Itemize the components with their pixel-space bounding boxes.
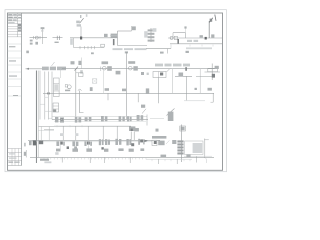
label a xyxy=(26,51,29,54)
left stub D9 xyxy=(146,115,148,126)
wire W3 upper xyxy=(118,30,132,32)
label row A3 xyxy=(186,47,212,49)
unit cluster D4 xyxy=(101,116,107,122)
shaft boxes SB1 xyxy=(53,103,59,112)
label G1 xyxy=(56,149,60,152)
hook h6 xyxy=(176,159,178,164)
junction blob J1 xyxy=(205,37,207,40)
bus W11 xyxy=(52,119,148,121)
riser tag D8 xyxy=(167,109,175,122)
label G10 xyxy=(40,159,49,161)
label G11 xyxy=(44,161,51,163)
blob F0a xyxy=(33,141,36,146)
bus W13 xyxy=(28,140,160,142)
branch b1 xyxy=(45,96,49,98)
stub S5 xyxy=(186,93,188,100)
loop riser R7 xyxy=(78,89,84,113)
label G3 xyxy=(86,148,92,151)
riser R2 xyxy=(75,69,77,120)
stub S2 xyxy=(107,93,109,100)
wire W4 drops xyxy=(173,26,187,38)
pump P3 xyxy=(101,66,112,71)
label G8 xyxy=(161,155,167,157)
drop E4 xyxy=(87,126,89,140)
hook h3 xyxy=(103,157,105,163)
label h xyxy=(160,52,164,54)
unit U1 xyxy=(65,85,71,92)
label F9 text xyxy=(152,136,166,139)
diag F9b xyxy=(166,140,169,144)
shaft box SB0 xyxy=(54,78,60,97)
riser tag flag xyxy=(209,15,216,23)
label W10a xyxy=(90,87,93,91)
blob F0c xyxy=(29,141,32,145)
marks A2 xyxy=(144,31,147,37)
label W10c xyxy=(122,89,126,92)
riser group xyxy=(40,71,52,120)
unit cluster D5 xyxy=(119,116,132,121)
main riser R1 xyxy=(36,71,38,164)
hook G14 xyxy=(205,158,208,163)
dot F15 xyxy=(67,146,69,149)
unit F6 xyxy=(126,139,134,146)
label row A1 xyxy=(113,48,147,50)
drop d1 xyxy=(73,38,75,48)
wire W2 lower xyxy=(74,47,105,49)
branch b2 xyxy=(40,103,45,105)
flow arrow A1 xyxy=(26,68,43,70)
bus W8 xyxy=(62,68,216,70)
unit cluster D2 xyxy=(75,117,81,123)
hook h7 xyxy=(196,156,198,162)
label W10d xyxy=(146,88,149,94)
label c xyxy=(91,52,94,54)
wire W10 xyxy=(43,92,214,94)
label G5 xyxy=(118,148,123,151)
junction W10j xyxy=(47,92,50,94)
riser R5c xyxy=(199,69,201,94)
label G9 xyxy=(186,154,190,157)
drop E3 xyxy=(75,126,77,140)
sheet inner frame xyxy=(8,13,223,170)
mark F17 xyxy=(74,146,77,148)
wire W10g xyxy=(184,100,205,102)
riser R4 xyxy=(126,52,128,120)
label S0 xyxy=(132,26,136,31)
blob B1a xyxy=(160,73,163,76)
stub S3 xyxy=(137,93,139,102)
shaded unit F12 xyxy=(185,141,204,155)
unit F12 stub xyxy=(204,139,209,159)
flow arrow F8 xyxy=(144,140,147,142)
pipe label LB1 xyxy=(42,62,66,70)
drop F13 xyxy=(59,142,61,151)
expansion tank T1 xyxy=(76,14,87,26)
sheet outer border xyxy=(5,10,227,172)
label D7 xyxy=(141,105,146,114)
gauge stem G1 xyxy=(42,29,44,44)
unit cluster D6 xyxy=(137,115,144,121)
bus W11 upper xyxy=(52,116,147,118)
riser R5b xyxy=(172,69,174,94)
wire W9 xyxy=(175,75,192,77)
stub G0 xyxy=(25,150,27,157)
unit U2 xyxy=(92,79,96,83)
valve dark V5 xyxy=(177,39,179,44)
label b xyxy=(71,61,75,64)
junction J2 xyxy=(75,67,79,71)
riser R5 xyxy=(158,78,160,94)
valve V4 xyxy=(170,36,177,39)
stub S4 xyxy=(158,93,160,103)
wire W12 xyxy=(54,125,131,127)
label g xyxy=(186,51,189,53)
label W10b xyxy=(105,88,109,91)
valve V1 xyxy=(34,36,41,39)
symbols S0 xyxy=(110,34,118,38)
label W1a xyxy=(30,40,33,45)
riser R5d xyxy=(103,69,105,94)
box E8 xyxy=(180,126,186,131)
wire W7 xyxy=(146,48,171,50)
unit F7 xyxy=(138,139,144,145)
unit F1 xyxy=(56,141,64,146)
pump P4 xyxy=(129,66,138,70)
ticks W2 xyxy=(80,46,95,49)
unit U3 xyxy=(196,64,220,81)
valve dark V2 xyxy=(113,39,115,45)
wire D9b xyxy=(150,118,164,120)
ticks W12 xyxy=(57,125,82,127)
unit cluster D3 xyxy=(85,117,92,121)
tank drop xyxy=(80,27,82,38)
valve V5b xyxy=(76,73,83,77)
label e xyxy=(128,61,135,64)
branch b4 xyxy=(48,117,52,119)
unit F9 xyxy=(152,140,165,145)
drop E6 xyxy=(116,126,118,140)
label G7 xyxy=(140,148,144,151)
dark blip J4b xyxy=(185,67,187,71)
label G6 xyxy=(129,149,134,152)
label d1 xyxy=(70,39,73,45)
hook h2 xyxy=(89,157,91,163)
dot F16 xyxy=(101,147,103,149)
label G13 xyxy=(24,143,26,156)
riser R6 xyxy=(186,76,188,93)
unit F3 xyxy=(84,141,92,146)
equipment box B1 xyxy=(153,72,166,78)
unit F4 xyxy=(99,139,110,145)
wire W3 lower xyxy=(118,45,148,47)
branch tag BT1 xyxy=(78,58,82,74)
riser tag leader xyxy=(208,21,210,38)
wire W5 xyxy=(168,37,222,39)
box E1 sides xyxy=(41,127,49,141)
label G1 xyxy=(41,27,45,31)
drop F14 xyxy=(88,142,90,151)
drop E5 xyxy=(102,126,104,140)
wire W6 xyxy=(170,43,222,45)
title block text xyxy=(8,14,21,163)
label G12 xyxy=(55,152,58,155)
wire W7 hook xyxy=(168,45,172,54)
box E1 xyxy=(39,127,54,131)
label G2 xyxy=(72,148,78,151)
diag J3 xyxy=(167,68,171,72)
valve V6 xyxy=(116,71,121,75)
mark W1b xyxy=(35,42,38,45)
label W10f xyxy=(208,88,212,91)
junction blob J0 xyxy=(80,37,82,40)
unit F2 xyxy=(72,141,78,146)
labels above F xyxy=(60,128,159,136)
wire W14b xyxy=(146,158,192,160)
wire W3 drop xyxy=(117,31,119,46)
mark P3t xyxy=(104,34,108,37)
hook h5 xyxy=(157,159,159,164)
cluster F10 xyxy=(172,140,176,144)
ticks W14 xyxy=(44,158,146,160)
wire W14c xyxy=(184,155,212,157)
riser E9 xyxy=(181,125,183,163)
meter box M0 xyxy=(101,44,105,47)
label W10e xyxy=(195,88,197,90)
label d xyxy=(102,61,109,64)
unit cluster D1 xyxy=(55,117,64,123)
union U1a xyxy=(57,36,59,40)
unit F5 xyxy=(115,139,121,145)
branch b3 xyxy=(45,110,52,112)
label G4 xyxy=(104,149,108,152)
hook h1 xyxy=(61,157,63,162)
label row A2b xyxy=(187,34,214,42)
label f xyxy=(125,51,128,53)
wire W14 xyxy=(30,156,214,158)
wire W4 xyxy=(173,32,186,34)
stub S6 xyxy=(211,93,214,102)
blob F0b xyxy=(39,141,43,144)
junction J4 xyxy=(179,73,184,77)
mark B1w xyxy=(141,72,149,75)
label U1a xyxy=(55,42,59,43)
pipe label LB2 xyxy=(155,64,190,67)
wire W1 main run xyxy=(30,37,118,39)
valve stack E7 xyxy=(129,126,135,140)
ticks W6 xyxy=(190,45,213,47)
label M1 xyxy=(152,28,156,32)
drop E2 xyxy=(62,126,64,140)
manifold M1 xyxy=(148,28,155,42)
ticks W14b xyxy=(152,159,190,161)
hook h4 xyxy=(129,157,131,163)
title block table xyxy=(8,13,22,166)
riser R3 xyxy=(60,69,62,78)
equipment stack F11 xyxy=(177,140,183,154)
